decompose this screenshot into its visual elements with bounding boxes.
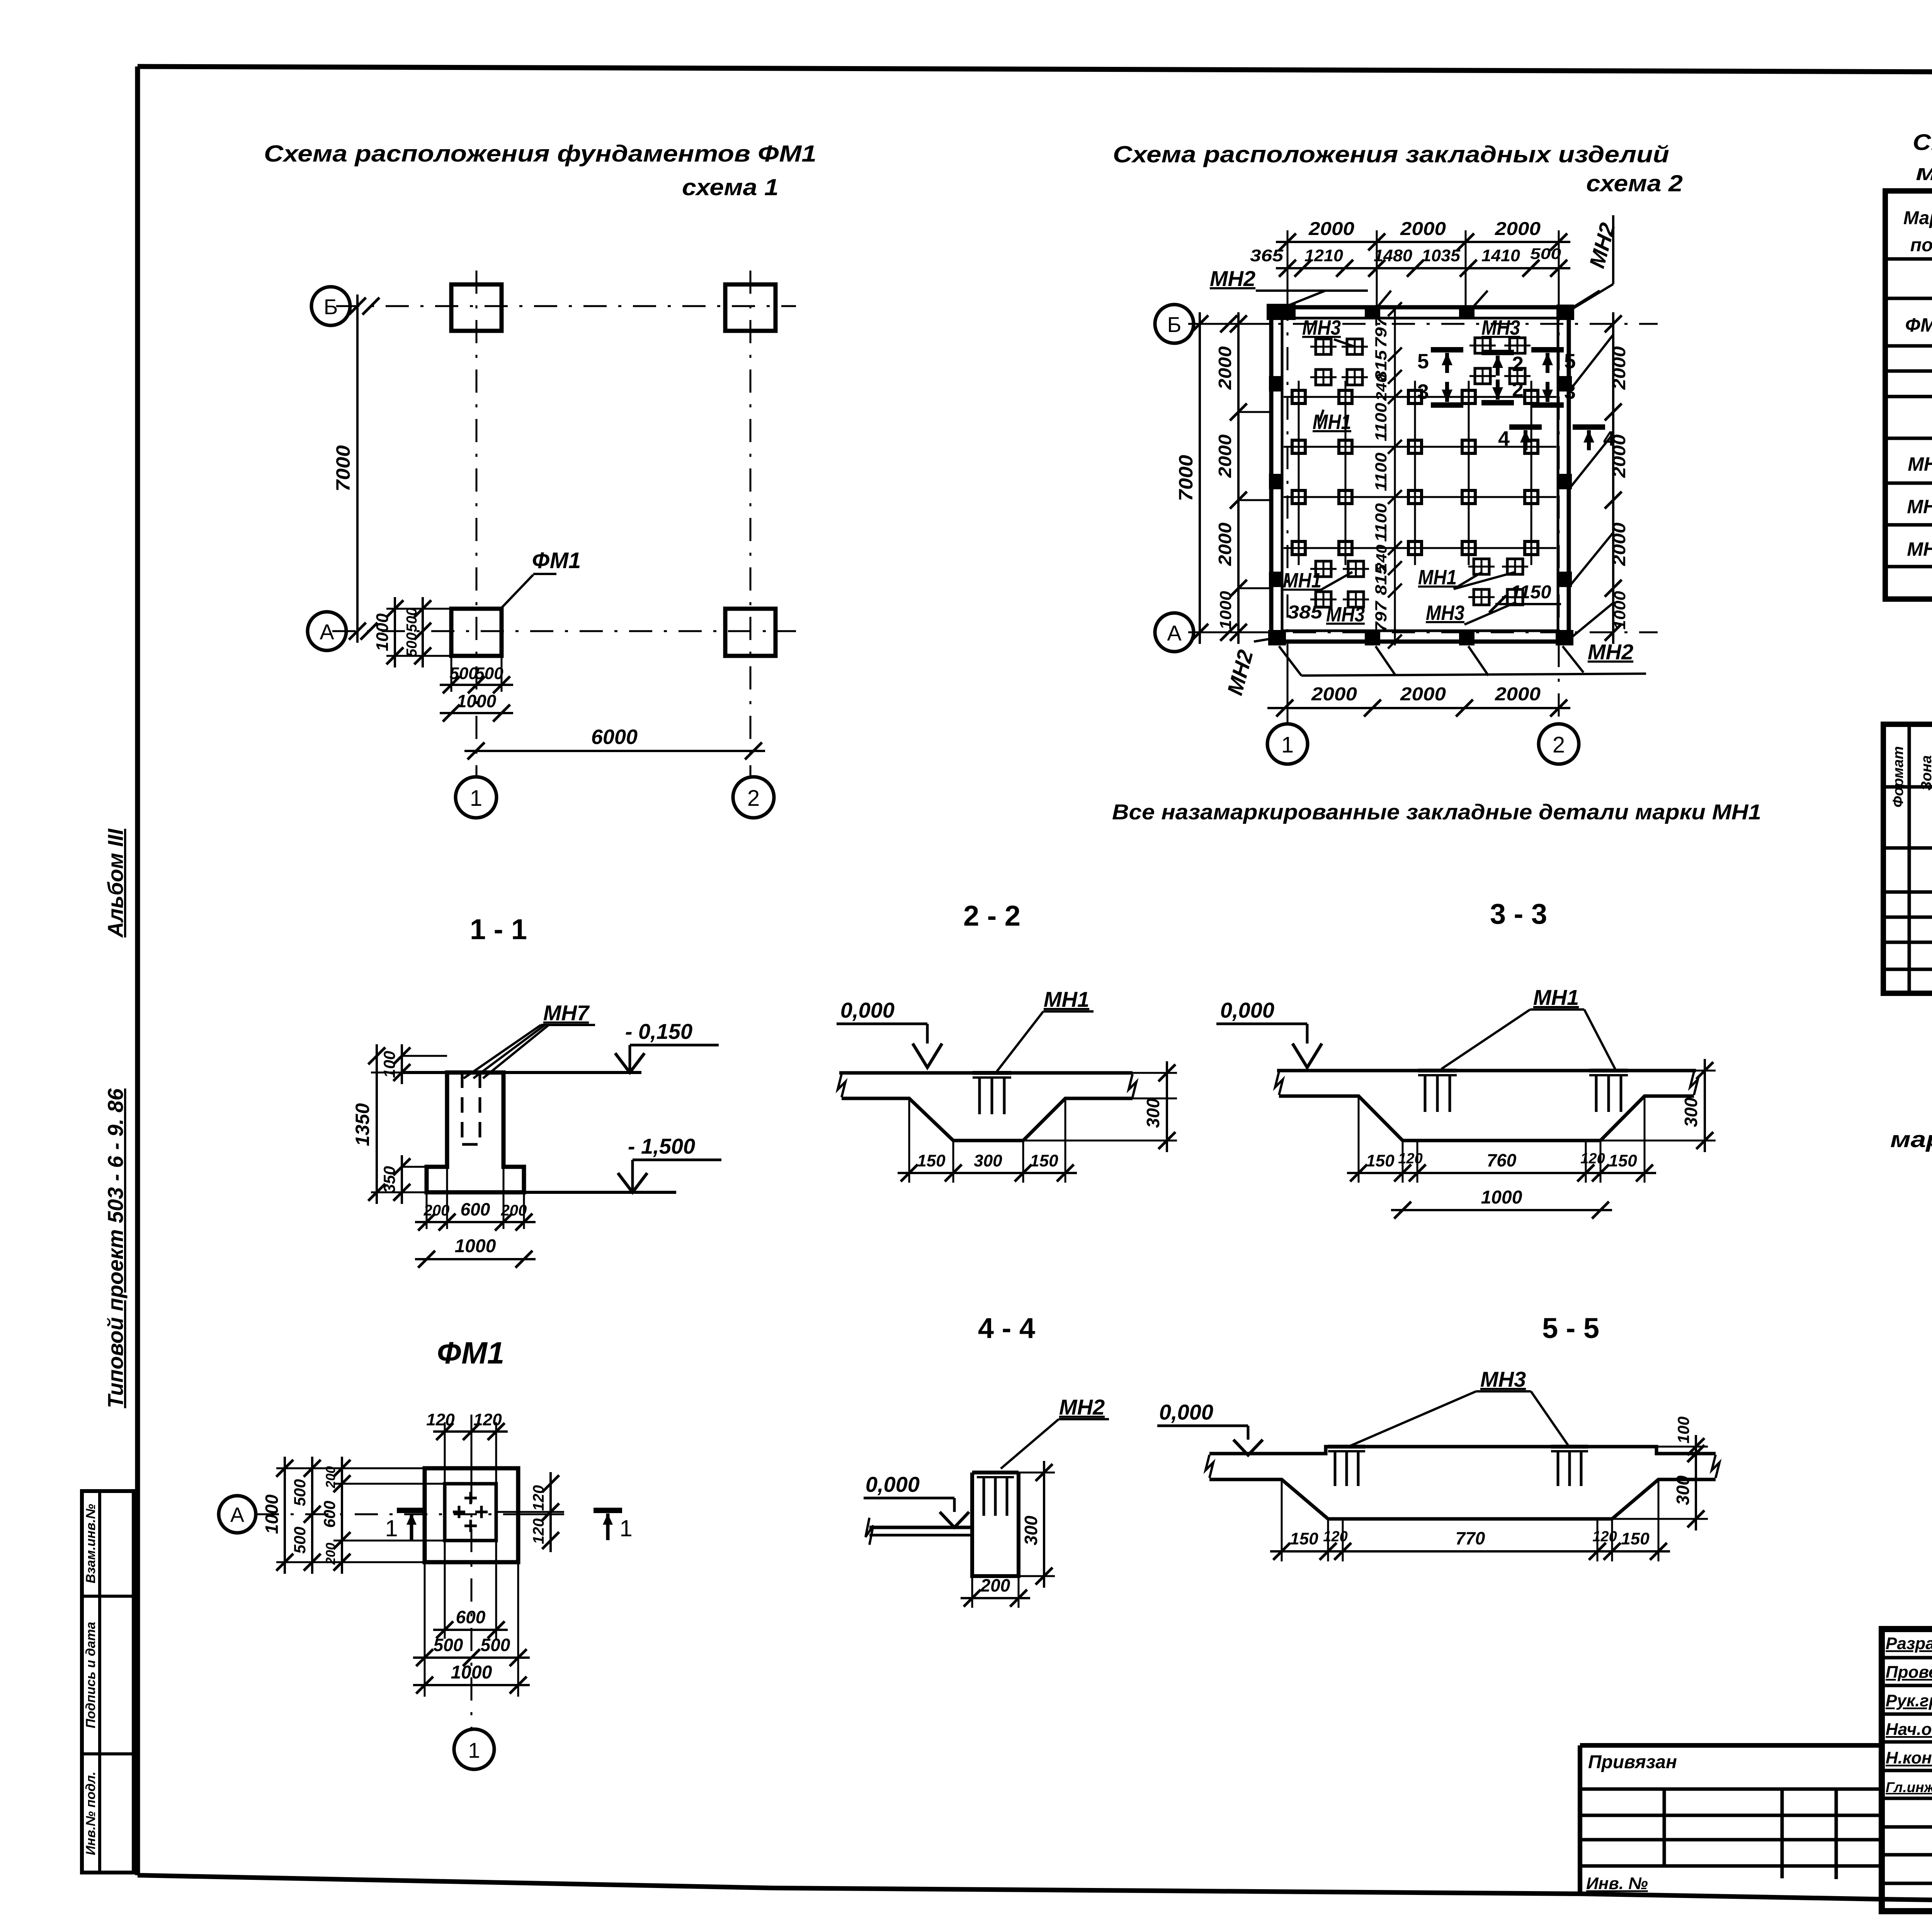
foundation ФМ1 top-right [725, 284, 776, 331]
dimension 500 500 below foundation [451, 656, 452, 692]
section 3-3 embedded plate МН1 left [1418, 1069, 1457, 1073]
section 5-5 bottom dims [1281, 1479, 1283, 1561]
svg-text:1: 1 [619, 1515, 632, 1541]
plate МН2 bottom mid 1 [1365, 632, 1380, 645]
section 3-3 pit profile [1279, 1096, 1694, 1141]
dimension 6000 [464, 750, 765, 752]
left extension lines scheme2 [1188, 323, 1271, 325]
axis line А [332, 630, 796, 632]
svg-text:1210: 1210 [1304, 246, 1344, 265]
svg-text:1: 1 [470, 786, 482, 811]
svg-text:Разраб.: Разраб. [1886, 1634, 1932, 1653]
svg-text:1000: 1000 [373, 613, 392, 651]
label МН2 bottom-right leader line [1301, 674, 1646, 676]
bottom diagonal leaders МН2 [1279, 646, 1301, 676]
section 4-4 dim 300 [1043, 1461, 1045, 1588]
svg-text:1000: 1000 [1216, 591, 1235, 630]
svg-text:2: 2 [747, 786, 760, 811]
section 4-4 dim 200 [971, 1576, 973, 1608]
svg-text:2: 2 [1512, 352, 1524, 376]
svg-text:100: 100 [1674, 1416, 1692, 1444]
section 3-3 embedded plate МН1 right [1589, 1069, 1628, 1073]
svg-text:600: 600 [461, 1199, 490, 1219]
section 1-1 anchor dashed lines [461, 1073, 464, 1144]
dimension chain 2000x3 bottom [1273, 707, 1570, 709]
svg-text:150: 150 [1290, 1529, 1318, 1548]
section 3-3 top surface [1277, 1069, 1696, 1073]
svg-text:Б: Б [1167, 312, 1182, 337]
plate МН2 right edge row 3 [1558, 572, 1572, 587]
svg-text:схема 2: схема 2 [1586, 170, 1683, 196]
section 1-1 left dimension 100-1350-350 [371, 1072, 447, 1074]
svg-text:ментов и закладных изде: ментов и закладных изделий [1916, 160, 1932, 185]
grid lines vertical [1298, 381, 1300, 565]
slab outer edge [1271, 307, 1569, 642]
svg-text:1000: 1000 [457, 691, 497, 711]
svg-text:МН1: МН1 [1533, 985, 1579, 1010]
svg-text:2000: 2000 [1215, 523, 1235, 567]
dimension 1150 [1495, 603, 1561, 605]
svg-text:1: 1 [385, 1515, 398, 1541]
spec table 1 grid [1885, 191, 1932, 599]
svg-text:300: 300 [974, 1151, 1002, 1170]
axis circle 1 [456, 777, 497, 818]
svg-text:1000: 1000 [1611, 591, 1629, 630]
section mark 4 left [1509, 424, 1542, 430]
svg-text:МН1: МН1 [1418, 566, 1457, 589]
svg-text:600: 600 [456, 1607, 486, 1627]
grid lines horizontal [1284, 396, 1556, 398]
svg-text:2: 2 [1553, 732, 1565, 758]
svg-text:0,000: 0,000 [1159, 1400, 1213, 1424]
section 5-5 embedded plate МН3 left [1328, 1445, 1365, 1449]
svg-text:1480: 1480 [1374, 246, 1413, 265]
plate МН2 top mid 2 [1459, 305, 1475, 319]
ФМ1 bottom dims 600 [444, 1541, 446, 1639]
axis circle Б [311, 287, 350, 325]
section mark 1 right [594, 1508, 622, 1513]
svg-text:Н.контр.: Н.контр. [1886, 1748, 1932, 1767]
extension lines top dims [1287, 230, 1289, 309]
ФМ1 bottom dim 1000 [413, 1684, 530, 1686]
svg-text:1100: 1100 [1372, 503, 1390, 542]
svg-text:150: 150 [1366, 1151, 1395, 1170]
section 2-2 top surface [839, 1071, 1133, 1075]
axis line 1 detail [471, 1430, 473, 1728]
svg-text:120: 120 [530, 1519, 547, 1544]
svg-text:схема 1: схема 1 [682, 174, 779, 200]
dimension chain 365-1210-1480-1035-1410-500 top [1276, 267, 1570, 269]
section 1-1 ground line left [401, 1071, 447, 1074]
svg-text:1000: 1000 [1481, 1187, 1522, 1208]
svg-text:Схема расположения фундамент: Схема расположения фундаментов ФМ1 [264, 141, 816, 167]
svg-text:МН1: МН1 [1044, 987, 1089, 1011]
axis circle 1 scheme2 [1267, 724, 1308, 764]
svg-text:МН3: МН3 [1426, 601, 1464, 625]
svg-text:365: 365 [1250, 246, 1284, 265]
svg-text:МН3: МН3 [1302, 316, 1341, 339]
plate МН2 left edge row 2 [1269, 474, 1283, 489]
slab inner edge [1282, 318, 1558, 631]
svg-text:Марка: Марка [1903, 208, 1932, 228]
right diagonal extension lines [1569, 335, 1613, 392]
plates МН3 top-right cluster [1475, 338, 1490, 353]
axis line 2 vertical [750, 271, 752, 777]
leader diagonals top [1376, 291, 1391, 309]
svg-text:7000: 7000 [1175, 455, 1197, 501]
plate МН2 top-right corner [1556, 305, 1574, 320]
dimension chain right 2000x3+1000 [1612, 312, 1614, 644]
svg-text:4: 4 [1498, 427, 1510, 450]
svg-text:МН3: МН3 [1480, 1367, 1526, 1391]
svg-text:Инв. №: Инв. № [1586, 1874, 1648, 1893]
svg-text:МН3: МН3 [1326, 603, 1365, 626]
svg-text:500: 500 [475, 664, 503, 683]
svg-text:1350: 1350 [352, 1103, 373, 1146]
svg-text:200: 200 [501, 1202, 527, 1219]
svg-text:150: 150 [917, 1151, 946, 1170]
svg-text:Зона: Зона [1918, 755, 1932, 791]
svg-text:5: 5 [1564, 350, 1576, 373]
svg-text:Инв.№ подл.: Инв.№ подл. [83, 1772, 98, 1856]
svg-text:Привязан: Привязан [1588, 1752, 1677, 1772]
title block outer [1882, 1629, 1932, 1911]
svg-text:500: 500 [449, 664, 478, 683]
section mark 2 bottom [1481, 400, 1514, 405]
svg-text:200: 200 [323, 1466, 338, 1489]
svg-text:Спецификация к схемам распо: Спецификация к схемам расположения элеме… [1913, 130, 1932, 155]
svg-text:500: 500 [481, 1635, 510, 1655]
svg-text:120: 120 [530, 1485, 547, 1511]
svg-text:7000: 7000 [332, 445, 354, 492]
section 3-3 dim 300 right [1704, 1059, 1706, 1152]
svg-text:А: А [1167, 621, 1182, 645]
extension to circle 1 [1287, 642, 1289, 724]
svg-text:300: 300 [1021, 1515, 1041, 1545]
svg-text:2000: 2000 [1609, 346, 1629, 390]
dimension 7000 left scheme2 [1199, 312, 1201, 644]
section 3-3 bottom dims [1358, 1096, 1360, 1183]
section 2-2 pit profile [842, 1098, 1133, 1141]
svg-text:815: 815 [1372, 564, 1390, 595]
section 3-3 dim 1000 [1391, 1209, 1612, 1211]
svg-text:150: 150 [1621, 1529, 1650, 1548]
svg-text:0,000: 0,000 [1220, 998, 1274, 1022]
svg-text:2: 2 [1512, 378, 1524, 401]
ФМ1 inner square [445, 1484, 496, 1541]
svg-text:200: 200 [980, 1575, 1010, 1595]
margin stamp table [82, 1491, 134, 1873]
svg-text:350: 350 [380, 1166, 398, 1193]
svg-text:Б: Б [324, 295, 338, 319]
axis line А scheme2 [1194, 632, 1658, 633]
axis line 2 scheme2 [1558, 298, 1560, 724]
section 2-2 embedded plate МН1 [973, 1071, 1011, 1075]
svg-text:300: 300 [1681, 1097, 1701, 1127]
plate МН2 bottom-left corner [1268, 630, 1286, 645]
svg-text:5: 5 [1417, 350, 1429, 373]
svg-text:2000: 2000 [1400, 684, 1446, 705]
svg-text:100: 100 [380, 1051, 398, 1078]
ФМ1 plus marks [464, 1497, 477, 1500]
plate МН2 bottom-right corner [1556, 630, 1573, 645]
plates МН3 bottom-left cluster [1316, 561, 1331, 577]
axis line Б [336, 305, 796, 307]
axis circle 1 detail [454, 1729, 494, 1769]
plates МН3 bottom-right cluster [1474, 559, 1489, 574]
svg-text:Гл.инж.пр.: Гл.инж.пр. [1886, 1779, 1932, 1795]
svg-text:1150: 1150 [1511, 582, 1551, 603]
section mark 2 top [1481, 350, 1514, 355]
svg-text:240: 240 [1374, 374, 1390, 401]
plate МН2 top mid 1 [1365, 305, 1380, 319]
plate МН2 left edge row 3 [1269, 572, 1283, 587]
section 1-1 pedestal outline [427, 1073, 524, 1192]
svg-text:1410: 1410 [1481, 246, 1520, 265]
svg-text:385: 385 [1287, 602, 1323, 623]
svg-text:МН1: МН1 [1283, 569, 1321, 592]
svg-text:марки 100 толщиной 100: марки 100 толщиной 100 мм [1890, 1127, 1932, 1152]
svg-text:120: 120 [426, 1410, 455, 1429]
dimension 500 500 left of foundation [422, 597, 424, 667]
svg-text:1035: 1035 [1422, 246, 1461, 265]
svg-text:2000: 2000 [1495, 219, 1541, 239]
section 4-4 wall [972, 1473, 1019, 1576]
embedded plates МН1 grid [1292, 390, 1305, 403]
axis circle 2 [733, 777, 774, 818]
plate МН2 right edge row 1 [1558, 376, 1572, 392]
svg-text:797: 797 [1372, 316, 1390, 348]
svg-text:150: 150 [1609, 1151, 1637, 1170]
dimension 1000 below foundation [440, 712, 513, 714]
svg-text:МН1: МН1 [1313, 410, 1351, 434]
plates МН3 top-left cluster [1316, 339, 1331, 354]
section 2-2 dim 300 right [1065, 1098, 1177, 1100]
section 3-3 break marks [1275, 1072, 1283, 1095]
middle dimension chain [1394, 305, 1396, 645]
section 5-5 embedded plate МН3 right [1551, 1445, 1588, 1449]
Привязан box [1580, 1745, 1882, 1894]
svg-text:МН7: МН7 [543, 1001, 590, 1025]
dimension chain left 2000x3+1000 [1237, 312, 1240, 644]
section 5-5 top profile [1209, 1447, 1716, 1454]
svg-text:120: 120 [473, 1410, 502, 1429]
plate МН2 right edge row 2 [1558, 474, 1572, 489]
section 1-1 bottom dims 200-600-200 [426, 1192, 428, 1229]
section 5-5 lower profile [1209, 1479, 1716, 1519]
svg-text:А: А [320, 620, 334, 644]
svg-text:0,000: 0,000 [866, 1472, 920, 1496]
svg-text:Альбом III: Альбом III [103, 828, 128, 938]
svg-text:МН3: МН3 [1481, 316, 1520, 339]
foundation ФМ1 top-left [451, 284, 502, 331]
svg-text:Все назамаркированные закл: Все назамаркированные закладные детали м… [1112, 800, 1761, 824]
svg-text:1: 1 [1281, 732, 1294, 758]
dimension chain 2000x3 top [1276, 241, 1570, 243]
axis line 1 scheme2 [1287, 298, 1289, 724]
axis line Б scheme2 [1194, 323, 1658, 325]
section 2-2 break marks [838, 1074, 845, 1097]
section 4-4 break mark [866, 1518, 873, 1545]
svg-text:ФМ1: ФМ1 [437, 1336, 505, 1370]
plate МН2 left edge row 1 [1269, 376, 1283, 392]
section 1-1 ground line right [503, 1071, 641, 1074]
svg-text:2000: 2000 [1311, 684, 1357, 705]
svg-text:2000: 2000 [1495, 684, 1541, 705]
svg-text:300: 300 [1673, 1475, 1693, 1505]
section mark 1 left [397, 1508, 425, 1513]
Привязан box columns [1663, 1789, 1666, 1866]
svg-text:3: 3 [1417, 380, 1429, 403]
svg-text:2000: 2000 [1400, 219, 1446, 239]
svg-text:2 - 2: 2 - 2 [963, 900, 1020, 932]
svg-text:500: 500 [404, 608, 420, 632]
svg-text:Типовой проект 503 - 6 -: Типовой проект 503 - 6 - 9. 86 [103, 1088, 128, 1408]
svg-text:МН2: МН2 [1210, 266, 1255, 291]
spec table 2 grid [1883, 724, 1932, 993]
svg-text:1100: 1100 [1372, 403, 1390, 441]
section 5-5 dims right 100 300 [1695, 1435, 1697, 1465]
svg-text:1 - 1: 1 - 1 [470, 913, 527, 945]
title block stamp rows [1882, 1656, 1932, 1660]
svg-text:600: 600 [320, 1501, 338, 1528]
svg-text:2000: 2000 [1308, 219, 1354, 239]
svg-text:1: 1 [468, 1738, 480, 1762]
foundation ФМ1 bottom-left [451, 609, 502, 656]
ФМ1 bottom dims 500 500 [424, 1562, 426, 1697]
svg-text:1000: 1000 [455, 1236, 496, 1256]
svg-text:2000: 2000 [1215, 346, 1235, 390]
axis circle А scheme2 [1155, 613, 1194, 652]
svg-text:поз.: поз. [1910, 235, 1932, 255]
svg-text:МН2: МН2 [1059, 1395, 1105, 1419]
section mark 3 left [1431, 402, 1463, 408]
section 4-4 floor slab [869, 1526, 972, 1529]
ФМ1 top dims 120 120 [444, 1422, 446, 1484]
ФМ1 outer square [425, 1468, 518, 1562]
svg-text:300: 300 [1143, 1098, 1163, 1128]
svg-text:120: 120 [1398, 1151, 1422, 1167]
svg-text:6000: 6000 [591, 725, 638, 749]
foundation ФМ1 bottom-right [725, 609, 776, 656]
sheet frame left border [135, 66, 140, 1875]
svg-text:2000: 2000 [1215, 434, 1235, 478]
svg-text:770: 770 [1456, 1528, 1485, 1548]
svg-text:МН2: МН2 [1588, 640, 1633, 664]
svg-text:1100: 1100 [1372, 453, 1390, 491]
svg-text:1000: 1000 [451, 1662, 492, 1683]
svg-text:Подпись и дата: Подпись и дата [83, 1622, 98, 1728]
svg-text:А: А [230, 1503, 244, 1527]
svg-text:1000: 1000 [262, 1494, 282, 1534]
svg-text:МН1: МН1 [1908, 453, 1932, 475]
svg-text:0,000: 0,000 [840, 998, 895, 1022]
dimension 1000 left of foundation [386, 608, 451, 610]
svg-text:2000: 2000 [1609, 523, 1629, 567]
section 1-1 bottom line extension [427, 1191, 676, 1194]
svg-text:500: 500 [291, 1527, 309, 1554]
svg-text:5 - 5: 5 - 5 [1542, 1312, 1599, 1344]
svg-text:Формат: Формат [1890, 746, 1906, 808]
svg-text:ФМ1: ФМ1 [532, 548, 581, 573]
ФМ1 left dims [284, 1457, 286, 1574]
axis circle А detail [219, 1496, 256, 1533]
plate МН2 top-left corner [1267, 304, 1296, 320]
svg-text:МН2: МН2 [1907, 496, 1932, 518]
section mark 5 left [1431, 347, 1463, 352]
axis line 1 vertical [476, 271, 478, 777]
svg-text:3 - 3: 3 - 3 [1490, 898, 1547, 930]
svg-text:120: 120 [1323, 1529, 1347, 1545]
svg-text:150: 150 [1030, 1151, 1058, 1170]
svg-text:4 - 4: 4 - 4 [978, 1312, 1035, 1344]
section mark 5 right [1531, 347, 1564, 352]
svg-text:500: 500 [1530, 245, 1561, 262]
svg-text:Взам.инв.№: Взам.инв.№ [83, 1504, 98, 1583]
svg-text:500: 500 [434, 1635, 463, 1655]
svg-text:Рук.гр.: Рук.гр. [1886, 1691, 1932, 1710]
section mark 3 right [1531, 402, 1564, 408]
svg-text:- 0,150: - 0,150 [625, 1019, 692, 1044]
section 5-5 break marks [1206, 1455, 1213, 1478]
dimension 7000 vertical [356, 295, 359, 643]
plate МН2 bottom mid 2 [1459, 632, 1475, 645]
svg-text:200: 200 [423, 1202, 450, 1219]
ФМ1 right dims 120 120 [496, 1511, 564, 1513]
svg-text:120: 120 [1592, 1529, 1617, 1545]
svg-text:- 1,500: - 1,500 [628, 1134, 695, 1158]
svg-text:500: 500 [404, 632, 420, 657]
svg-text:ФМ1: ФМ1 [1905, 314, 1932, 336]
svg-text:Провер: Провер [1886, 1663, 1932, 1682]
svg-text:3: 3 [1564, 380, 1576, 403]
sheet frame bottom border [138, 1875, 1932, 1910]
svg-text:120: 120 [1580, 1151, 1605, 1167]
svg-text:500: 500 [291, 1479, 309, 1506]
section 1-1 dim 1000 [415, 1258, 536, 1260]
svg-text:Нач.отд: Нач.отд [1886, 1720, 1932, 1739]
svg-text:4: 4 [1603, 427, 1615, 450]
sheet frame top border [138, 66, 1932, 74]
axis circle А [308, 612, 346, 650]
svg-text:Схема расположения закладных: Схема расположения закладных изделий [1113, 141, 1669, 167]
svg-text:760: 760 [1487, 1150, 1517, 1170]
axis line А detail [256, 1513, 541, 1515]
axis circle 2 scheme2 [1539, 724, 1579, 764]
section 2-2 bottom dims 150-300-150 [908, 1098, 910, 1183]
axis circle Б scheme2 [1155, 305, 1194, 343]
svg-text:797: 797 [1372, 601, 1390, 632]
section 4-4 embedded plate МН2 [977, 1471, 1014, 1474]
svg-text:МН3: МН3 [1907, 538, 1932, 560]
section mark 4 right [1573, 424, 1605, 430]
